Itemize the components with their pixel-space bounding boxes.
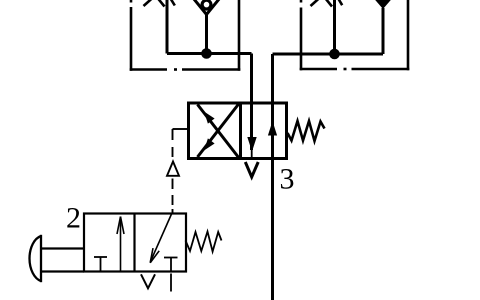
svg-text:3: 3 (280, 163, 295, 196)
valve U2 left position flow path (up arrow) (117, 217, 124, 272)
enclosure box 2 (right one-way speed controller, dash-dot) (300, 0, 410, 70)
wire: supply line through valve 3 down to bottom edge (271, 54, 274, 300)
throttle adjustment arrow tail (right box) (311, 0, 321, 6)
valve U3 position divider (239, 103, 242, 159)
valve U3 left position crossed path 2 (down-left arrow) (198, 104, 240, 158)
push button actuator of valve U2 (30, 235, 84, 282)
valve U2 body (84, 214, 186, 272)
wire: check valve to junction (left box) (205, 15, 208, 54)
valve U2 right position blocked port T (164, 258, 178, 272)
spring of valve U2 (186, 232, 222, 252)
wire: right box output horizontal (273, 53, 384, 56)
throttle valve flow line (right box) (333, 0, 336, 54)
throttle adjustment arrow tail (left box) (144, 0, 154, 6)
wire: arrow stem to valve 3 bottom edge (251, 150, 253, 160)
pilot line (dashed) from valve U3 to pilot triangle (173, 129, 189, 157)
exhaust V below valve U2 (141, 274, 155, 288)
arrowhead up (valve 3 right position, P to port B) (268, 121, 277, 136)
valve U3 body (189, 103, 287, 159)
check valve seat V (left box) (194, 0, 220, 15)
arrowhead down (valve 3 right position, path A to exhaust) (247, 137, 256, 152)
pilot line (dashed) from triangle down to valve U2 (172, 179, 174, 215)
spring of valve U3 (288, 121, 325, 141)
throttle valve flow line (left box) (166, 0, 169, 54)
wire: left controller down to valve 3 port A (250, 54, 253, 151)
valve U2 right position diagonal path (arrow to exhaust) (150, 214, 171, 263)
supply stub below valve U2 (170, 274, 172, 292)
enclosure box 1 (left one-way speed controller, dash-dot) (130, 0, 241, 71)
check valve triangle (right box) (374, 0, 393, 9)
pilot triangle (pneumatic pilot) (167, 162, 179, 176)
valve U2 position divider (133, 214, 135, 272)
wire: left box output horizontal (167, 52, 252, 55)
valve U2 left position blocked port T (94, 257, 107, 272)
junction dot (right box) (329, 49, 340, 60)
exhaust V below valve U3 (245, 162, 258, 177)
valve U3 left position crossed path 1 (up-left arrow) (198, 105, 240, 159)
wire: check valve down (right box) (382, 8, 385, 54)
check valve ball (left box) (202, 0, 211, 9)
junction dot (left box) (201, 48, 212, 59)
throttle arc tips (right box) (326, 0, 343, 7)
throttle arc tips (left box) (158, 0, 175, 7)
svg-text:2: 2 (66, 202, 81, 235)
